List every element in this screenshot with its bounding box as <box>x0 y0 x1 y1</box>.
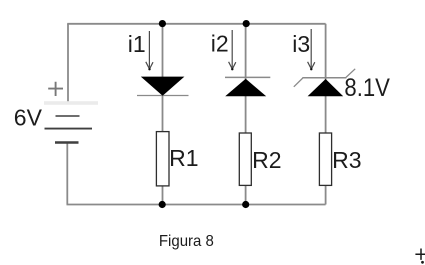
diode D1 cathode bar <box>137 95 189 97</box>
svg-text:R2: R2 <box>252 147 281 173</box>
wire branch 2 vertical <box>245 24 247 205</box>
zener D3 left tick <box>294 78 303 87</box>
wire branch 1 vertical <box>162 24 164 205</box>
resistor R2 body <box>239 133 251 185</box>
battery plate long light <box>44 101 98 105</box>
svg-text:6V: 6V <box>14 104 43 130</box>
resistor R1 body <box>156 132 169 186</box>
svg-text:i1: i1 <box>128 31 146 57</box>
wire left vertical (battery top lead) <box>67 24 69 102</box>
battery V1 plus sign <box>48 82 63 96</box>
node junction dot top branch 2 <box>243 20 250 27</box>
node junction dot bottom branch 2 <box>242 201 249 208</box>
wire branch 3 vertical <box>325 24 327 205</box>
node junction dot top branch 1 <box>159 20 166 27</box>
diode D2 bar <box>225 76 270 78</box>
arrow i3 <box>308 29 315 69</box>
zener D3 bar <box>302 77 346 79</box>
zener D3 right tick <box>346 69 355 78</box>
zener D3 triangle (points up) <box>308 79 344 96</box>
svg-text:R3: R3 <box>332 147 361 173</box>
svg-text:R1: R1 <box>169 145 198 171</box>
arrow i2 <box>229 30 236 69</box>
tiny mark below cross <box>421 261 424 264</box>
diode D2 triangle (points up) <box>225 79 266 96</box>
arrow i1 <box>146 31 153 69</box>
wire top horizontal <box>67 23 325 25</box>
battery plate short dark <box>55 141 79 143</box>
crop cross mark bottom right <box>415 249 425 260</box>
battery plate long dark <box>45 128 93 130</box>
svg-text:Figura 8: Figura 8 <box>159 233 214 250</box>
svg-text:i2: i2 <box>211 31 229 57</box>
battery plate short gray <box>56 115 80 117</box>
diode D1 triangle (points down) <box>141 77 185 96</box>
svg-text:8.1V: 8.1V <box>344 74 390 102</box>
node junction dot bottom branch 1 <box>159 201 166 208</box>
svg-text:i3: i3 <box>292 31 310 57</box>
resistor R3 body <box>319 133 331 185</box>
wire battery bottom lead <box>66 143 68 205</box>
wire bottom horizontal <box>67 204 326 206</box>
